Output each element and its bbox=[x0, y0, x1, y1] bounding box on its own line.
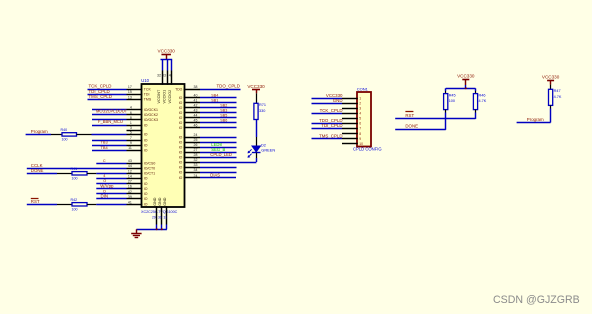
svg-text:7: 7 bbox=[130, 136, 132, 140]
svg-text:VCCIO2: VCCIO2 bbox=[168, 90, 172, 104]
svg-text:100: 100 bbox=[62, 138, 68, 142]
svg-text:DONE: DONE bbox=[31, 168, 44, 173]
svg-text:IO: IO bbox=[179, 116, 183, 120]
svg-text:IO: IO bbox=[144, 149, 148, 153]
svg-text:R45: R45 bbox=[449, 93, 456, 97]
svg-text:IO: IO bbox=[179, 106, 183, 110]
svg-text:31: 31 bbox=[164, 216, 168, 220]
svg-text:100: 100 bbox=[72, 208, 78, 212]
wire R40 to U10 bbox=[77, 134, 127, 136]
resistor R41 bbox=[71, 167, 88, 180]
svg-text:IO: IO bbox=[179, 170, 183, 174]
svg-text:1: 1 bbox=[359, 96, 361, 100]
svg-text:GND: GND bbox=[163, 197, 167, 206]
svg-text:IO: IO bbox=[179, 155, 183, 159]
svg-text:43: 43 bbox=[194, 109, 198, 113]
svg-text:Program: Program bbox=[527, 117, 544, 122]
power symbol VCC330 bbox=[247, 84, 265, 94]
power symbol VCC330 bbox=[542, 75, 560, 85]
svg-text:IO: IO bbox=[179, 121, 183, 125]
svg-text:IO: IO bbox=[179, 96, 183, 100]
wire SB2 (U10 right) bbox=[200, 103, 237, 107]
wire row y172.0 (U10 right) bbox=[200, 172, 237, 174]
svg-text:TMS_CPLD: TMS_CPLD bbox=[89, 94, 112, 99]
svg-text:16: 16 bbox=[128, 185, 132, 189]
U10 bottom pin names GND (vertical) bbox=[153, 197, 167, 206]
svg-text:TDI: TDI bbox=[144, 92, 150, 96]
svg-text:32: 32 bbox=[157, 73, 161, 77]
svg-text:TDI_CPLD: TDI_CPLD bbox=[321, 123, 342, 128]
U10 left pin stubs bbox=[127, 90, 143, 205]
svg-text:GREEN: GREEN bbox=[261, 148, 275, 153]
wire R42 to U10 bbox=[87, 204, 127, 206]
svg-text:13: 13 bbox=[128, 95, 132, 99]
svg-text:IO: IO bbox=[179, 126, 183, 130]
svg-text:4: 4 bbox=[169, 73, 171, 77]
svg-text:SB5: SB5 bbox=[220, 113, 227, 117]
wire CCLK (U10 left) bbox=[27, 163, 127, 169]
svg-text:39: 39 bbox=[128, 195, 132, 199]
svg-text:32: 32 bbox=[194, 158, 198, 162]
svg-text:100: 100 bbox=[449, 99, 455, 103]
wire DIAS (U10 right) bbox=[200, 173, 236, 178]
wire RST (active low) + resistor R42 100 bbox=[27, 199, 72, 205]
CON1 pin numbers 1-10 bbox=[359, 96, 363, 145]
svg-text:8: 8 bbox=[130, 116, 132, 120]
svg-text:TCK: TCK bbox=[144, 87, 152, 91]
wire TDI_CPLD (CON1 pin 7) bbox=[312, 123, 343, 128]
wire VCC330 rail to U10 top pins bbox=[161, 60, 173, 71]
svg-text:Program: Program bbox=[31, 129, 48, 134]
U10 bottom pin numbers bbox=[152, 216, 167, 220]
U10 top pin names (vertical) bbox=[157, 89, 172, 103]
wire SEG_B (U10 right) bbox=[200, 147, 237, 153]
wire row y142.0 (U10 right) bbox=[200, 142, 237, 144]
svg-text:GND: GND bbox=[333, 98, 343, 103]
svg-text:IO/GCK1: IO/GCK1 bbox=[144, 108, 158, 112]
svg-text:4: 4 bbox=[103, 174, 105, 178]
wire at y125.05 (U10 left) bbox=[92, 125, 127, 127]
wire row y167.0 (U10 right) bbox=[200, 167, 237, 169]
wire TDI_CPLD (U10 left) bbox=[88, 89, 127, 95]
svg-text:4: 4 bbox=[130, 106, 132, 110]
svg-text:5: 5 bbox=[359, 117, 361, 121]
U10 left pin numbers bbox=[128, 85, 132, 204]
svg-text:24: 24 bbox=[194, 133, 198, 137]
svg-text:24: 24 bbox=[194, 174, 198, 178]
svg-text:11: 11 bbox=[128, 146, 132, 150]
resistor R71 330 bbox=[254, 103, 266, 119]
svg-text:12: 12 bbox=[128, 169, 132, 173]
svg-text:IO: IO bbox=[144, 177, 148, 181]
svg-text:IO: IO bbox=[144, 203, 148, 207]
svg-text:RST: RST bbox=[31, 199, 40, 204]
svg-text:1: 1 bbox=[130, 121, 132, 125]
junction dot bbox=[465, 87, 467, 89]
CPLD U10 body bbox=[142, 84, 185, 207]
svg-text:8: 8 bbox=[359, 132, 361, 136]
svg-text:IO/GCK2: IO/GCK2 bbox=[144, 113, 158, 117]
svg-text:45: 45 bbox=[194, 119, 198, 123]
wire R71 to D2 bbox=[256, 120, 258, 147]
power symbol VCC330 bbox=[158, 49, 176, 60]
wire TCK_CPLD (CON1 pin 4) bbox=[312, 108, 343, 113]
svg-text:17: 17 bbox=[128, 85, 132, 89]
svg-text:27: 27 bbox=[128, 180, 132, 184]
svg-text:IO: IO bbox=[144, 182, 148, 186]
wire TMS_CPLD (U10 left) bbox=[88, 94, 127, 100]
power symbol VCC330 bbox=[457, 74, 475, 85]
svg-text:VCC330: VCC330 bbox=[158, 49, 176, 54]
svg-text:42: 42 bbox=[194, 104, 198, 108]
svg-text:VCC330: VCC330 bbox=[542, 75, 560, 80]
wire VCC330 to R71 bbox=[256, 93, 258, 103]
svg-text:XC2C256-7VQG100C: XC2C256-7VQG100C bbox=[141, 210, 178, 214]
svg-text:D2: D2 bbox=[261, 142, 266, 147]
wire SB4 (U10 right) bbox=[200, 93, 237, 97]
svg-text:IO: IO bbox=[179, 140, 183, 144]
svg-text:6: 6 bbox=[359, 122, 361, 126]
svg-text:MCU2CPLDOUT: MCU2CPLDOUT bbox=[96, 109, 128, 114]
svg-text:IO/CS0: IO/CS0 bbox=[144, 161, 156, 165]
wire RST (to R46) bbox=[395, 112, 475, 119]
wire CPLD_LED (U10 right) bbox=[200, 152, 237, 158]
svg-text:IO: IO bbox=[179, 101, 183, 105]
svg-text:44: 44 bbox=[194, 114, 198, 118]
svg-text:SB3: SB3 bbox=[220, 108, 227, 112]
connector CON1 body bbox=[357, 92, 371, 147]
wire R45 down to DONE bbox=[445, 110, 447, 130]
svg-text:4.7K: 4.7K bbox=[554, 95, 562, 99]
svg-text:IO: IO bbox=[179, 150, 183, 154]
svg-text:40: 40 bbox=[194, 94, 198, 98]
LED D2 GREEN bbox=[248, 142, 276, 158]
wire at y109.6 (U10 left) bbox=[92, 109, 127, 111]
wire row y127.5 (U10 right) bbox=[200, 127, 237, 129]
svg-text:27: 27 bbox=[194, 148, 198, 152]
svg-text:SB1: SB1 bbox=[211, 98, 218, 102]
svg-text:43: 43 bbox=[128, 159, 132, 163]
ground symbol bbox=[131, 234, 141, 238]
svg-text:4.7K: 4.7K bbox=[479, 99, 487, 103]
svg-text:34: 34 bbox=[194, 168, 198, 172]
svg-text:IO: IO bbox=[144, 123, 148, 127]
svg-text:6: 6 bbox=[130, 111, 132, 115]
svg-text:VCCINT: VCCINT bbox=[157, 89, 161, 103]
resistor R45 100 bbox=[444, 93, 456, 109]
wire D2 cathode down to net bbox=[256, 153, 258, 162]
resistor R47 4.7K bbox=[549, 89, 562, 105]
wire O (U10 left) bbox=[96, 179, 126, 183]
svg-text:VCCIO1: VCCIO1 bbox=[163, 90, 167, 104]
svg-text:VCC330: VCC330 bbox=[247, 84, 265, 89]
resistor R42 bbox=[71, 198, 88, 211]
svg-text:33: 33 bbox=[194, 163, 198, 167]
wire LED8 (U10 right) bbox=[200, 142, 237, 148]
svg-text:R47: R47 bbox=[554, 89, 561, 93]
wire W/Vpp (U10 left) bbox=[96, 183, 126, 188]
svg-text:IO: IO bbox=[144, 197, 148, 201]
svg-text:42: 42 bbox=[128, 190, 132, 194]
wire R41 to U10 bbox=[87, 173, 127, 175]
svg-text:IO: IO bbox=[144, 192, 148, 196]
wire GND (CON1 pin 2) bbox=[312, 98, 343, 104]
wire TDO_CPLD (U10 right) bbox=[200, 84, 241, 90]
U10 right pin numbers bbox=[194, 85, 198, 178]
svg-text:TDO_CPLD: TDO_CPLD bbox=[217, 84, 240, 89]
svg-text:30: 30 bbox=[158, 216, 162, 220]
svg-text:14: 14 bbox=[128, 174, 132, 178]
svg-text:IO: IO bbox=[179, 160, 183, 164]
CON1 pin stubs bbox=[342, 99, 358, 144]
svg-text:R71: R71 bbox=[259, 103, 266, 107]
svg-text:F_BBN_MCU: F_BBN_MCU bbox=[98, 119, 123, 124]
svg-text:9: 9 bbox=[130, 141, 132, 145]
svg-text:DIAS: DIAS bbox=[210, 173, 220, 178]
svg-text:3: 3 bbox=[359, 107, 361, 111]
wire DIN (U10 left) bbox=[96, 194, 126, 199]
svg-text:IO/CT0: IO/CT0 bbox=[144, 166, 155, 170]
svg-text:CPLD_LED: CPLD_LED bbox=[210, 152, 232, 157]
svg-text:330: 330 bbox=[259, 109, 265, 113]
wire row y137.0 (U10 right) bbox=[200, 137, 237, 139]
svg-text:R46: R46 bbox=[479, 93, 486, 97]
U10 bottom pin stubs bbox=[157, 206, 167, 224]
wire VCC330 rail to R45/R46 bbox=[446, 85, 476, 94]
resistor R46 4.7K bbox=[473, 93, 486, 109]
U10 top pin numbers bbox=[157, 73, 171, 77]
wire DONE + resistor R41 100 bbox=[27, 168, 72, 174]
wire TDO_CPLD (CON1 pin 6) bbox=[312, 118, 343, 123]
wire SB3 (U10 right) bbox=[200, 108, 237, 112]
svg-text:IO: IO bbox=[144, 138, 148, 142]
svg-text:RST: RST bbox=[405, 113, 414, 118]
wire R46 down to RST bbox=[475, 110, 477, 119]
svg-text:44: 44 bbox=[128, 164, 132, 168]
svg-text:R42: R42 bbox=[71, 198, 78, 202]
svg-text:7: 7 bbox=[359, 127, 361, 131]
svg-text:IO: IO bbox=[179, 165, 183, 169]
wire at y119.9 (U10 left) bbox=[92, 119, 127, 121]
svg-text:33: 33 bbox=[162, 73, 166, 77]
svg-text:5: 5 bbox=[130, 130, 132, 134]
U10 left pin names bbox=[144, 87, 158, 206]
svg-text:9: 9 bbox=[359, 137, 361, 141]
svg-text:TCK_CPLD: TCK_CPLD bbox=[320, 108, 343, 113]
svg-text:VCC330: VCC330 bbox=[457, 74, 475, 79]
U10 right pin names bbox=[175, 87, 183, 180]
svg-text:CPLD CONFIG: CPLD CONFIG bbox=[353, 146, 382, 151]
svg-text:TMS_CPLD: TMS_CPLD bbox=[319, 133, 342, 138]
wire SB1 (U10 right) bbox=[200, 98, 237, 102]
wire TCK_CPLD (U10 left) bbox=[88, 84, 127, 90]
wire CPLD LED net to D2 bbox=[200, 162, 256, 164]
svg-text:R41: R41 bbox=[71, 167, 78, 171]
svg-text:W/Vpp: W/Vpp bbox=[100, 183, 114, 188]
wire SB6 (U10 right) bbox=[200, 118, 237, 122]
U10 right pin stubs bbox=[184, 90, 200, 178]
svg-text:28: 28 bbox=[194, 153, 198, 157]
svg-text:IO: IO bbox=[179, 111, 183, 115]
wire C (U10 left) bbox=[96, 159, 126, 164]
wire GND bus bbox=[136, 225, 167, 234]
svg-text:41: 41 bbox=[194, 99, 198, 103]
svg-text:IO/CT1: IO/CT1 bbox=[144, 172, 155, 176]
svg-text:4: 4 bbox=[359, 112, 361, 116]
wire VCC330 (CON1 pin 1) bbox=[312, 93, 344, 99]
svg-text:41: 41 bbox=[128, 200, 132, 204]
svg-text:TMS: TMS bbox=[144, 98, 152, 102]
svg-text:38: 38 bbox=[194, 85, 198, 89]
wire 4 (U10 left) bbox=[96, 174, 126, 178]
svg-text:TB4: TB4 bbox=[101, 145, 109, 150]
svg-text:15: 15 bbox=[128, 90, 132, 94]
resistor R40 bbox=[61, 128, 77, 141]
svg-text:IO: IO bbox=[179, 135, 183, 139]
wire VCC330 to R47 bbox=[550, 85, 552, 90]
svg-text:GND: GND bbox=[153, 197, 157, 206]
wire at y114.75 (U10 left) bbox=[92, 114, 127, 116]
U10 top pin stubs bbox=[163, 71, 172, 85]
svg-text:100: 100 bbox=[72, 177, 78, 181]
svg-text:SB2: SB2 bbox=[220, 103, 227, 107]
svg-text:U10: U10 bbox=[141, 78, 149, 83]
junction dot bbox=[161, 228, 163, 230]
junction dot bbox=[156, 228, 158, 230]
svg-text:10: 10 bbox=[359, 142, 363, 146]
svg-text:26: 26 bbox=[194, 143, 198, 147]
wire DONE (to R45) bbox=[395, 124, 446, 130]
svg-text:29: 29 bbox=[152, 216, 156, 220]
svg-text:IO: IO bbox=[144, 187, 148, 191]
svg-text:IO: IO bbox=[179, 145, 183, 149]
svg-text:IO: IO bbox=[179, 176, 183, 180]
svg-text:SB4: SB4 bbox=[211, 93, 218, 97]
svg-text:DONE: DONE bbox=[405, 124, 418, 129]
svg-text:GND: GND bbox=[158, 197, 162, 206]
svg-text:C: C bbox=[103, 159, 106, 163]
wire at y150.2 (U10 left) bbox=[92, 150, 127, 152]
svg-text:25: 25 bbox=[194, 138, 198, 142]
svg-text:IO: IO bbox=[144, 133, 148, 137]
svg-text:46: 46 bbox=[194, 124, 198, 128]
wire Program (right) bbox=[517, 105, 551, 122]
svg-text:2: 2 bbox=[359, 101, 361, 105]
wire TMS_CPLD (CON1 pin 9) bbox=[312, 133, 343, 138]
svg-text:CSDN @GJZGRB: CSDN @GJZGRB bbox=[493, 294, 580, 306]
wire at y140.0 (U10 left) bbox=[92, 140, 127, 142]
svg-text:DIN: DIN bbox=[101, 194, 109, 199]
wire Program (left) + resistor R40 100 bbox=[26, 129, 62, 134]
svg-text:SB6: SB6 bbox=[220, 118, 227, 122]
svg-text:TDO: TDO bbox=[175, 87, 183, 91]
svg-text:CON1: CON1 bbox=[357, 87, 369, 92]
svg-text:IO: IO bbox=[144, 143, 148, 147]
svg-text:R40: R40 bbox=[61, 128, 68, 132]
wire D (U10 left) bbox=[96, 190, 126, 194]
wire at y145.1 (U10 left) bbox=[92, 145, 127, 147]
svg-text:IO/GCK3: IO/GCK3 bbox=[144, 118, 158, 122]
wire SB5 (U10 right) bbox=[200, 113, 237, 117]
